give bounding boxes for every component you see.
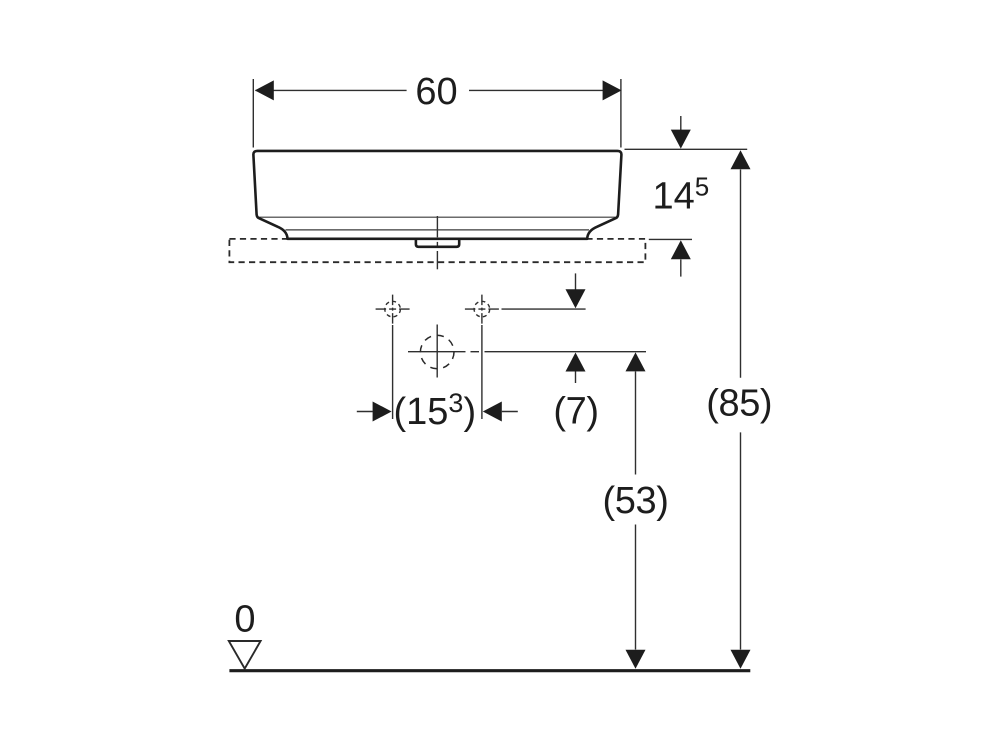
svg-text:60: 60 — [415, 71, 457, 113]
svg-text:(7): (7) — [553, 391, 598, 433]
svg-text:(153): (153) — [394, 388, 477, 433]
svg-text:(85): (85) — [706, 382, 772, 424]
svg-text:0: 0 — [234, 598, 255, 640]
svg-text:(53): (53) — [603, 480, 669, 522]
